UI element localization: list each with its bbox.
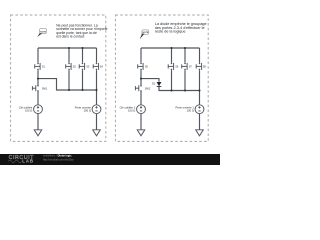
svg-text:D1: D1 [152,82,156,86]
wire branch C [82,48,84,90]
note text left [56,23,107,38]
svg-text:est dans le contact: est dans le contact [56,35,84,39]
svg-text:http://circuitlab.com/c6w35ax: http://circuitlab.com/c6w35ax [43,159,74,162]
wire branch B2 [171,48,173,91]
voltage source V4 Porte ouverte 1 [195,105,204,114]
wire top bus left [38,47,97,49]
svg-text:100 Ω: 100 Ω [128,109,135,113]
wire branch A lower [37,92,39,105]
wire branch D2 to ground [199,114,201,130]
voltage source V1 Clé oubliée [34,105,43,114]
diode D1 [157,82,162,86]
junction dot bus C [82,47,84,49]
ground left 2 [93,130,101,136]
switch SW2 key contact [135,85,141,92]
svg-text:100 Ω: 100 Ω [25,109,32,113]
wire branch D [96,48,98,105]
svg-text:S4: S4 [100,64,104,68]
svg-text:S1: S1 [42,64,46,68]
wire top bus right [141,47,200,49]
node B junction dot [140,78,142,80]
wire node B to diode [141,79,159,82]
switch S4 [93,63,98,71]
note text right [155,22,207,33]
wire branch B [68,48,70,90]
junction dot bottom C2 [184,90,186,92]
switch S7 [182,63,187,71]
junction dot bottom D [96,89,98,91]
switch S8 [196,63,201,71]
footer logo wave [8,160,21,163]
wire elbow node A to bottom bus [38,79,97,90]
junction dot bottom B [68,89,70,91]
junction dot bus B [68,47,70,49]
switch S2 [66,63,71,71]
svg-text:NOTE: NOTE [40,31,46,33]
junction dot bottom B2 [171,90,173,92]
svg-text:S7: S7 [189,64,193,68]
left schematic dashed frame [11,15,106,141]
footer bar [0,154,220,165]
wire diode to bottom bus right [159,87,200,91]
node A junction dot [37,78,39,80]
junction dot bus C2 [184,47,186,49]
wire branch D2 [199,48,201,105]
note bubble right [140,30,149,39]
ground right 2 [196,130,204,136]
svg-text:SW1: SW1 [42,86,48,90]
note bubble left [37,29,46,37]
switch S6 [168,63,173,71]
svg-text:S5: S5 [145,64,149,68]
wire branch A to ground [37,114,39,130]
switch S1 [35,63,40,71]
wire branch A2 to ground [140,114,142,130]
svg-text:sebleblanc / Diode logic: sebleblanc / Diode logic [43,154,72,158]
ground left 1 [34,130,42,136]
junction dot bus B2 [171,47,173,49]
ground right 1 [137,130,145,136]
wire branch A2 mid [140,70,142,85]
junction dot bottom C [82,89,84,91]
svg-text:S3: S3 [86,64,90,68]
wire branch A mid [37,70,39,85]
wire branch A2 lower [140,92,142,105]
right schematic dashed frame [115,15,208,141]
svg-text:S2: S2 [73,64,77,68]
svg-text:100 Ω: 100 Ω [187,109,194,113]
svg-text:S8: S8 [203,64,207,68]
switch SW1 key contact [32,85,38,92]
wire branch A2 upper [140,48,142,63]
switch S3 [79,63,84,71]
svg-text:S6: S6 [175,64,179,68]
wire branch D to ground [96,114,98,130]
wire branch A upper [37,48,39,63]
wire branch C2 [184,48,186,91]
svg-text:100 Ω: 100 Ω [84,109,91,113]
svg-text:LAB: LAB [22,159,34,164]
junction dot bottom D2 [199,90,201,92]
switch S5 [138,63,143,71]
voltage source V3 Clé oubliée 1 [137,105,146,114]
svg-text:SW2: SW2 [145,86,151,90]
voltage source V2 Porte ouverte [92,105,101,114]
svg-text:reste de la logique: reste de la logique [155,30,186,34]
